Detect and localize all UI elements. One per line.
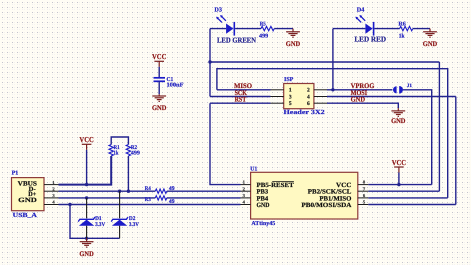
wire R1 top to R2 top bracket	[111, 137, 128, 145]
pin 1 P1 VBUS	[44, 184, 59, 186]
svg-text:D3: D3	[214, 7, 222, 14]
svg-text:Header 3X2: Header 3X2	[284, 109, 325, 116]
pin 4 U1	[241, 204, 251, 206]
wire green LED row left segment	[210, 28, 226, 30]
svg-text:P1: P1	[12, 171, 19, 177]
wire LED D3 cathode to R5	[235, 28, 261, 30]
node VCC-VBUS junction	[85, 183, 88, 186]
resistor R2	[126, 145, 130, 156]
svg-text:GND: GND	[351, 96, 366, 104]
pin 7 U1	[358, 190, 369, 192]
wire PB0 pin row	[368, 204, 456, 206]
IC U1 ATtiny45	[251, 172, 358, 219]
node GND branch at P1	[68, 203, 71, 206]
wire RST down to U1 pin1 PB5	[210, 103, 241, 184]
wire R5 to ground	[274, 28, 293, 30]
svg-text:2: 2	[307, 88, 310, 94]
wire R2 bottom down to D- row	[127, 156, 129, 191]
wire SCK vertical from green LED row down to SCK row	[209, 29, 211, 97]
svg-text:3.3V: 3.3V	[95, 222, 106, 228]
wire SCK right vertical down to PB2	[438, 62, 440, 191]
svg-text:GND: GND	[257, 202, 270, 209]
diode D1 zener 3.3V	[78, 217, 95, 226]
svg-text:R3: R3	[145, 197, 151, 203]
ground at R6	[423, 29, 437, 38]
pin 4 ISP	[314, 96, 327, 98]
wire red LED row left segment	[333, 28, 366, 30]
wire RST row to ISP pin5	[210, 102, 271, 104]
wire J1 to VCC vertical down to U1 pin8	[403, 90, 432, 185]
LED D3 green	[216, 15, 234, 36]
wire R6 to ground	[413, 28, 430, 30]
svg-text:GND: GND	[286, 40, 300, 48]
ground at R5	[286, 29, 300, 38]
wire VCC vertical from red LED row down to VPROG row	[332, 29, 334, 90]
resistor R5	[261, 26, 274, 30]
pin 3 P1 D+	[44, 197, 59, 199]
node VCC junction at U1	[397, 183, 400, 186]
ground at C1	[152, 94, 166, 101]
wire D- row from P1 to R4	[59, 190, 156, 192]
pin 5 ISP	[271, 102, 284, 104]
svg-text:PB0/MOSI/SDA: PB0/MOSI/SDA	[301, 202, 351, 209]
power VCC at C1	[154, 61, 164, 67]
wire MOSI row from ISP pin4 to right vertical	[327, 96, 456, 98]
svg-text:3.3V: 3.3V	[129, 222, 140, 228]
pin 6 U1	[358, 197, 369, 199]
svg-text:GND: GND	[391, 117, 405, 125]
svg-text:499: 499	[131, 151, 140, 157]
svg-text:4: 4	[307, 94, 310, 100]
pin 2 P1 D-	[44, 190, 59, 192]
svg-text:GND: GND	[152, 104, 166, 112]
pin 2 ISP	[314, 89, 327, 91]
wire D+ down to D1 cathode	[86, 198, 88, 218]
power VCC near U1	[394, 167, 404, 173]
pin 5 U1	[358, 204, 369, 206]
wire PB1 pin row	[368, 197, 447, 199]
svg-text:1k: 1k	[399, 32, 405, 39]
ground below zeners	[80, 238, 94, 247]
wire VCC to C1 top plate	[158, 67, 160, 77]
svg-text:U1: U1	[250, 166, 257, 172]
svg-text:ATtiny45: ATtiny45	[251, 220, 275, 227]
svg-text:499: 499	[259, 33, 268, 39]
wire D- down to D2 cathode	[119, 191, 121, 218]
resistor R4	[155, 189, 167, 193]
pin 2 U1	[241, 190, 251, 192]
svg-text:ISP: ISP	[284, 77, 294, 83]
diode D2 zener 3.3V	[111, 217, 128, 226]
capacitor C1	[154, 78, 166, 82]
wire VCC vertical to VBUS row	[86, 150, 88, 185]
wire D1 anode to GND rail	[86, 226, 88, 239]
svg-text:USB_A: USB_A	[13, 212, 38, 219]
node R2 on D- row	[127, 190, 130, 193]
wire VCC symbol stem	[398, 173, 400, 185]
svg-text:LED RED: LED RED	[354, 35, 386, 44]
svg-text:GND: GND	[423, 40, 437, 48]
pin 8 U1	[358, 184, 369, 186]
svg-text:LED GREEN: LED GREEN	[217, 35, 257, 44]
pin 4 P1 GND	[44, 204, 59, 206]
wire D+ row from P1 to R3	[59, 197, 156, 199]
svg-text:VCC: VCC	[392, 158, 406, 167]
LED D4 red	[355, 15, 373, 36]
svg-text:VCC: VCC	[152, 52, 166, 61]
connector P1 USB_A	[12, 178, 45, 211]
pin 1 U1	[241, 184, 251, 186]
wire MISO row to ISP pin1	[217, 89, 271, 91]
svg-text:R6: R6	[398, 21, 405, 27]
connector ISP Header 3X2	[284, 84, 314, 109]
wire GND row from P1 to U1 pin4	[59, 204, 241, 206]
wire D2 anode to GND rail	[119, 226, 121, 239]
svg-text:1k: 1k	[114, 150, 120, 157]
resistor R6	[400, 26, 413, 30]
svg-text:D1: D1	[95, 216, 102, 222]
jumper J1	[393, 86, 403, 94]
node D1 on D+ row	[85, 196, 88, 199]
svg-text:RST: RST	[235, 96, 247, 104]
resistor R1	[109, 145, 113, 156]
pin 3 U1	[241, 197, 251, 199]
wire GND rail under zener diodes	[70, 205, 120, 239]
svg-text:VCC: VCC	[79, 135, 93, 144]
svg-text:3: 3	[289, 94, 292, 100]
wire R4 to U1 pin2 PB3	[167, 190, 241, 192]
svg-text:D4: D4	[357, 7, 365, 14]
svg-text:R5: R5	[260, 21, 266, 27]
node D1 anode on GND rail	[85, 237, 88, 240]
svg-text:100nF: 100nF	[167, 83, 184, 89]
node SCK junction at top wire	[208, 60, 211, 63]
wire VBUS row to R1 bottom	[59, 156, 112, 185]
wire C1 bottom plate to ground	[158, 81, 160, 94]
wire VPROG row from ISP pin2 to J1	[327, 89, 392, 91]
svg-text:6: 6	[307, 101, 310, 107]
resistor R3	[155, 196, 167, 200]
node red LED junction on VPROG row	[331, 88, 334, 91]
wire VCC pin row	[368, 184, 431, 186]
wire SCK row to ISP pin3	[210, 96, 271, 98]
wire LED D4 cathode to R6	[374, 28, 399, 30]
wire SCK top horizontal	[210, 61, 439, 63]
svg-text:R4: R4	[145, 186, 151, 192]
wire R3 to U1 pin3 PB4	[167, 197, 241, 199]
power VCC near P1	[82, 144, 92, 150]
svg-text:D2: D2	[129, 216, 136, 222]
svg-text:GND: GND	[18, 197, 37, 204]
wire PB2 pin row	[368, 190, 439, 192]
node D2 on D- row	[118, 190, 121, 193]
svg-text:5: 5	[289, 101, 292, 107]
svg-text:1: 1	[289, 88, 292, 94]
pin 1 ISP	[271, 89, 284, 91]
wire MOSI right vertical down to PB0	[455, 97, 457, 205]
svg-text:J1: J1	[407, 83, 413, 89]
ground at ISP header	[391, 108, 405, 116]
wire MISO: up, across, down to PB1	[217, 69, 448, 198]
pin 3 ISP	[271, 96, 284, 98]
wire ISP pin6 to ground	[327, 103, 398, 108]
pin 6 ISP	[314, 102, 327, 104]
svg-text:GND: GND	[79, 250, 93, 258]
